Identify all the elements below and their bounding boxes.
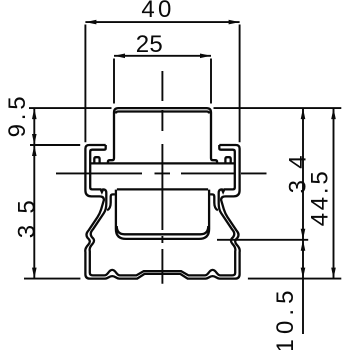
dimension line 40: [85, 21, 239, 23]
extension line block top right: [214, 107, 342, 109]
web bottom line mid segment: [117, 188, 208, 190]
left slot groove: [107, 194, 115, 210]
extension line right of 25 dim: [210, 59, 212, 104]
top block inner rim line: [116, 112, 209, 114]
dimension line 35: [33, 145, 35, 279]
horizontal centerline: [56, 172, 267, 174]
arrow 34 top: [301, 108, 306, 119]
arrow 35 top: [32, 145, 37, 156]
dimension line 34: [302, 108, 304, 240]
arrow 10.5 top: [301, 240, 306, 251]
arrow 9.5 bottom: [32, 134, 37, 145]
arrow 10.5 bottom: [301, 268, 306, 279]
arrow 9.5 top: [32, 108, 37, 119]
extension line left of 40 dim: [84, 25, 86, 143]
left tab on web: [94, 157, 99, 163]
arrow 44.5 bottom: [331, 268, 336, 279]
vertical centerline: [161, 71, 163, 284]
extension line left of 25 dim: [113, 59, 115, 104]
svg-text:44.5: 44.5: [307, 171, 334, 226]
svg-text:9.5: 9.5: [4, 96, 31, 137]
inner channel walls and shelf bottom: [116, 190, 209, 239]
arrow 34 bottom: [301, 229, 306, 240]
shelf top surface: [117, 226, 209, 234]
dimension line 44.5: [333, 108, 335, 279]
svg-text:25: 25: [136, 31, 163, 58]
extension line hook top left: [30, 144, 80, 146]
rail outer contour: [85, 145, 239, 279]
extension line right of 40 dim: [239, 25, 241, 143]
extension line shelf bottom right: [217, 239, 308, 241]
arrow 40 right: [229, 20, 240, 25]
arrow 25 left: [114, 54, 125, 59]
arrow 40 left: [85, 20, 96, 25]
arrow 25 right: [200, 54, 211, 59]
right slot groove: [210, 194, 218, 210]
dimension line 9.5: [33, 108, 35, 145]
arrow 35 bottom: [32, 268, 37, 279]
dimension line 10.5 with tail: [302, 240, 304, 334]
extension line block top left: [29, 107, 112, 109]
right tab on web: [225, 157, 230, 163]
top block outline: [108, 108, 217, 163]
extension line bottom right: [248, 278, 341, 280]
rail inner contour: [90, 145, 236, 275]
arrow 44.5 top: [331, 108, 336, 119]
dimension line 25: [114, 55, 211, 57]
web top line: [90, 162, 235, 164]
extension line bottom left: [24, 278, 80, 280]
